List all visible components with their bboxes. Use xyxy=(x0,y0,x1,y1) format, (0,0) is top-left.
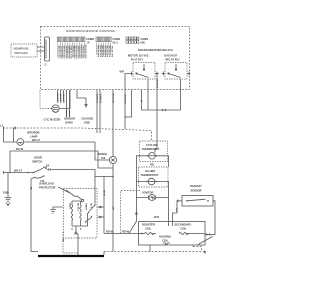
wire BU-W to signal xyxy=(10,151,113,168)
junction node door feed xyxy=(27,172,29,174)
cycling feed wire xyxy=(156,74,158,90)
wire BK-W relay to console edge xyxy=(112,90,114,130)
signal feed wire xyxy=(96,90,98,133)
relay com wire xyxy=(126,90,132,117)
interior lamp LT1 xyxy=(17,139,24,146)
svg-text:BK-20 5 P5: BK-20 5 P5 xyxy=(106,46,108,58)
svg-text:CONN: CONN xyxy=(141,37,149,41)
cycling left wire xyxy=(137,156,147,182)
motor main winding xyxy=(71,201,72,226)
svg-text:6A: 6A xyxy=(46,164,49,168)
svg-text:05-1: 05-1 xyxy=(113,41,119,45)
svg-text:RD-W 5H: RD-W 5H xyxy=(124,95,126,105)
svg-text:THERMOSTAT: THERMOSTAT xyxy=(141,173,159,177)
centrifugal switch contacts xyxy=(85,204,96,222)
svg-text:COIL: COIL xyxy=(162,239,169,243)
radiant sensor right wire xyxy=(213,201,215,235)
hi-limit right wire down xyxy=(157,182,169,222)
svg-text:COMB: COMB xyxy=(86,37,94,41)
svg-text:110: 110 xyxy=(101,156,106,160)
gas valve assembly box xyxy=(139,222,206,246)
pin header P2 (7 pins) xyxy=(96,37,111,42)
buzzer left wire from board edge xyxy=(40,90,52,109)
svg-text:INTERIOR: INTERIOR xyxy=(27,131,40,135)
motor bottom wire to power line xyxy=(77,234,79,256)
svg-text:CYCLING: CYCLING xyxy=(146,143,158,147)
motor left lower wire xyxy=(63,232,78,253)
chassis ground wire xyxy=(77,90,86,104)
svg-text:START: START xyxy=(85,203,88,211)
svg-text:HI-LIMIT: HI-LIMIT xyxy=(145,169,156,173)
svg-text:BU-W: BU-W xyxy=(16,147,24,151)
power line thick xyxy=(38,255,104,257)
svg-text:PROTECTOR: PROTECTOR xyxy=(39,186,56,190)
svg-text:COIL: COIL xyxy=(181,227,188,231)
leader line xyxy=(58,187,70,193)
svg-text:WH-LT: WH-LT xyxy=(32,138,41,142)
svg-text:SECONDARY: SECONDARY xyxy=(175,223,192,227)
svg-text:OR-W 4M: OR-W 4M xyxy=(62,93,65,103)
svg-text:MICROPROCESSOR CONTROL: MICROPROCESSOR CONTROL xyxy=(66,29,115,33)
svg-text:RD 5: RD 5 xyxy=(90,203,92,209)
cycle buzzer B1 xyxy=(52,105,59,113)
svg-text:GND: GND xyxy=(84,121,90,125)
wire stub OR-W below board xyxy=(63,90,65,101)
signal buzzer xyxy=(98,130,117,164)
motor ground xyxy=(50,207,63,213)
relay coil feed wire WR xyxy=(125,74,130,91)
wire RD-W coil feed lower xyxy=(124,90,126,129)
svg-text:HOLDING: HOLDING xyxy=(159,235,171,239)
pin header P1 labels xyxy=(58,37,94,59)
svg-text:BOOSTER: BOOSTER xyxy=(142,223,155,227)
svg-text:RD-22 6 P5: RD-22 6 P5 xyxy=(108,46,110,58)
branch vertical to door line xyxy=(9,151,11,173)
motor right terminals xyxy=(97,207,104,217)
connector J1 xyxy=(44,37,50,67)
svg-text:WH-B 1S: WH-B 1S xyxy=(99,94,101,104)
holding coil xyxy=(159,235,171,245)
svg-text:CYC BUZZER: CYC BUZZER xyxy=(44,118,61,122)
motor internal joins xyxy=(72,201,88,232)
svg-text:RD-W: RD-W xyxy=(106,230,114,234)
junction node motor relay output xyxy=(141,100,143,102)
svg-text:W-R: W-R xyxy=(175,208,177,213)
svg-text:SENSOR: SENSOR xyxy=(64,117,75,121)
svg-text:WH-LT: WH-LT xyxy=(14,169,23,173)
drive motor enclosure xyxy=(64,189,98,239)
svg-text:LAMP: LAMP xyxy=(30,135,38,139)
chassis ground arrow xyxy=(84,104,87,108)
inline connector on heater feed xyxy=(162,109,165,111)
overload protector label xyxy=(39,182,56,190)
sensor bar pads xyxy=(67,110,70,117)
diagonal brace wire xyxy=(198,237,213,245)
neutral riser xyxy=(193,245,202,252)
valve internal joins xyxy=(152,222,173,246)
svg-text:BU-16 3 P5: BU-16 3 P5 xyxy=(101,46,103,58)
relay K1 (motor relay) xyxy=(128,54,159,80)
svg-text:BU: BU xyxy=(29,187,31,191)
membrane switches box xyxy=(11,44,37,57)
door switch feed wire xyxy=(4,172,34,174)
svg-text:05C: 05C xyxy=(141,41,146,45)
svg-text:BOARD MOUNTED RELAYS: BOARD MOUNTED RELAYS xyxy=(138,48,173,52)
svg-text:BU-W 2M: BU-W 2M xyxy=(56,93,58,103)
connector block P3 (2x5 grid) xyxy=(126,37,139,43)
L1 feed wire down xyxy=(13,128,15,142)
cycling thermostat xyxy=(140,141,168,162)
pin header P1 (12 pins) xyxy=(57,37,85,42)
radiant sensor xyxy=(182,184,213,206)
svg-text:MEMBRANE: MEMBRANE xyxy=(14,47,29,51)
valve right wire xyxy=(186,234,215,235)
svg-text:W-R: W-R xyxy=(154,215,159,219)
wire WH down to bottom xyxy=(112,177,114,252)
svg-text:BARS: BARS xyxy=(66,121,74,125)
radiant sensor left wire xyxy=(173,201,183,222)
svg-text:OVERLOAD: OVERLOAD xyxy=(39,182,54,186)
spare relay wire xyxy=(141,90,143,110)
cycling thermostat feed lower xyxy=(155,90,157,153)
ignitor left wire down xyxy=(129,198,137,234)
svg-text:SWITCHES: SWITCHES xyxy=(14,51,28,55)
centrifugal switch wire xyxy=(94,188,96,204)
door switch lower wire down xyxy=(31,178,38,252)
svg-text:R=17 RLY: R=17 RLY xyxy=(131,58,143,62)
lamp branch wire xyxy=(4,128,96,142)
pin leader hairlines xyxy=(58,43,111,58)
svg-text:MAIN: MAIN xyxy=(69,203,72,209)
sensor bar wire right xyxy=(69,90,71,110)
svg-text:CONN: CONN xyxy=(113,37,121,41)
microprocessor control board dashed enclosure xyxy=(41,27,190,90)
valve bottom wire xyxy=(149,245,151,252)
svg-text:GY-W 3M: GY-W 3M xyxy=(59,94,61,104)
svg-text:SIGNAL: SIGNAL xyxy=(98,152,108,156)
pin header P2 labels xyxy=(97,37,121,58)
svg-text:BK-W: BK-W xyxy=(102,190,104,197)
svg-text:DOOR: DOOR xyxy=(34,156,42,160)
sensor bar wire left xyxy=(66,90,68,110)
ignitor xyxy=(137,191,169,201)
motor relay output wire xyxy=(147,79,149,110)
svg-text:WH-B 1S: WH-B 1S xyxy=(96,94,98,104)
svg-text:SENSOR: SENSOR xyxy=(191,189,202,193)
valve left junction xyxy=(141,233,143,235)
signal lower wire xyxy=(95,164,113,234)
secondary coil xyxy=(175,223,192,235)
overload protector element xyxy=(66,190,82,200)
svg-text:WH-12 1 P5: WH-12 1 P5 xyxy=(97,45,99,58)
hi-limit thermostat xyxy=(139,167,169,187)
wire 6A door to motor xyxy=(45,167,96,188)
buzzer right wire up to board xyxy=(59,90,70,109)
door switch S1 xyxy=(32,156,45,184)
console boundary dashed xyxy=(3,128,152,141)
svg-text:GND: GND xyxy=(3,191,9,195)
svg-text:SWITCH: SWITCH xyxy=(32,160,42,164)
svg-text:BU-W 4: BU-W 4 xyxy=(77,203,80,212)
svg-text:MOTOR 115 VAC: MOTOR 115 VAC xyxy=(128,54,149,58)
winding labels xyxy=(69,203,92,212)
svg-text:GAS HEAT: GAS HEAT xyxy=(164,54,178,58)
svg-text:IF: IF xyxy=(88,41,91,45)
harness dashed conduit xyxy=(121,191,141,234)
svg-text:TN-24 7 P5: TN-24 7 P5 xyxy=(110,46,113,58)
svg-text:RD-W 86: RD-W 86 xyxy=(155,79,157,89)
relay K2 (heat relay) xyxy=(162,54,191,80)
svg-text:BK-W 6H: BK-W 6H xyxy=(112,94,114,104)
ground symbol near door switch xyxy=(3,173,11,206)
signal return wire xyxy=(99,90,101,133)
lamp return corner down xyxy=(95,142,109,160)
svg-text:CHASSIS: CHASSIS xyxy=(82,117,94,121)
svg-text:WH: WH xyxy=(111,206,113,210)
svg-text:RADIANT: RADIANT xyxy=(190,184,202,188)
svg-text:RELAY RLY: RELAY RLY xyxy=(166,58,181,62)
valve feed horizontal xyxy=(104,233,139,235)
motor start winding xyxy=(80,201,81,226)
svg-text:THERMOSTAT: THERMOSTAT xyxy=(142,147,160,151)
neutral dashed return xyxy=(104,251,202,253)
svg-text:RD: RD xyxy=(150,163,154,167)
svg-text:COIL: COIL xyxy=(145,227,152,231)
svg-text:L1: L1 xyxy=(0,124,4,128)
heat relay output wire xyxy=(180,79,182,110)
heater feed horizontal wire xyxy=(142,109,181,111)
cycling right wire xyxy=(158,156,169,167)
motor bottom contacts xyxy=(71,228,72,229)
wire labels below board xyxy=(44,93,126,124)
svg-text:BK: BK xyxy=(61,239,63,243)
svg-text:IGNITOR: IGNITOR xyxy=(143,191,154,195)
wire stub GY-W below board xyxy=(60,90,62,101)
svg-text:RD-W: RD-W xyxy=(122,230,130,234)
svg-text:WR: WR xyxy=(120,70,124,74)
booster coil xyxy=(142,223,155,235)
hi-limit left wire down xyxy=(137,182,147,199)
connector on boundary xyxy=(14,127,16,130)
wire membrane to J1 xyxy=(37,47,45,51)
wire stub BU-W below board xyxy=(57,90,59,101)
